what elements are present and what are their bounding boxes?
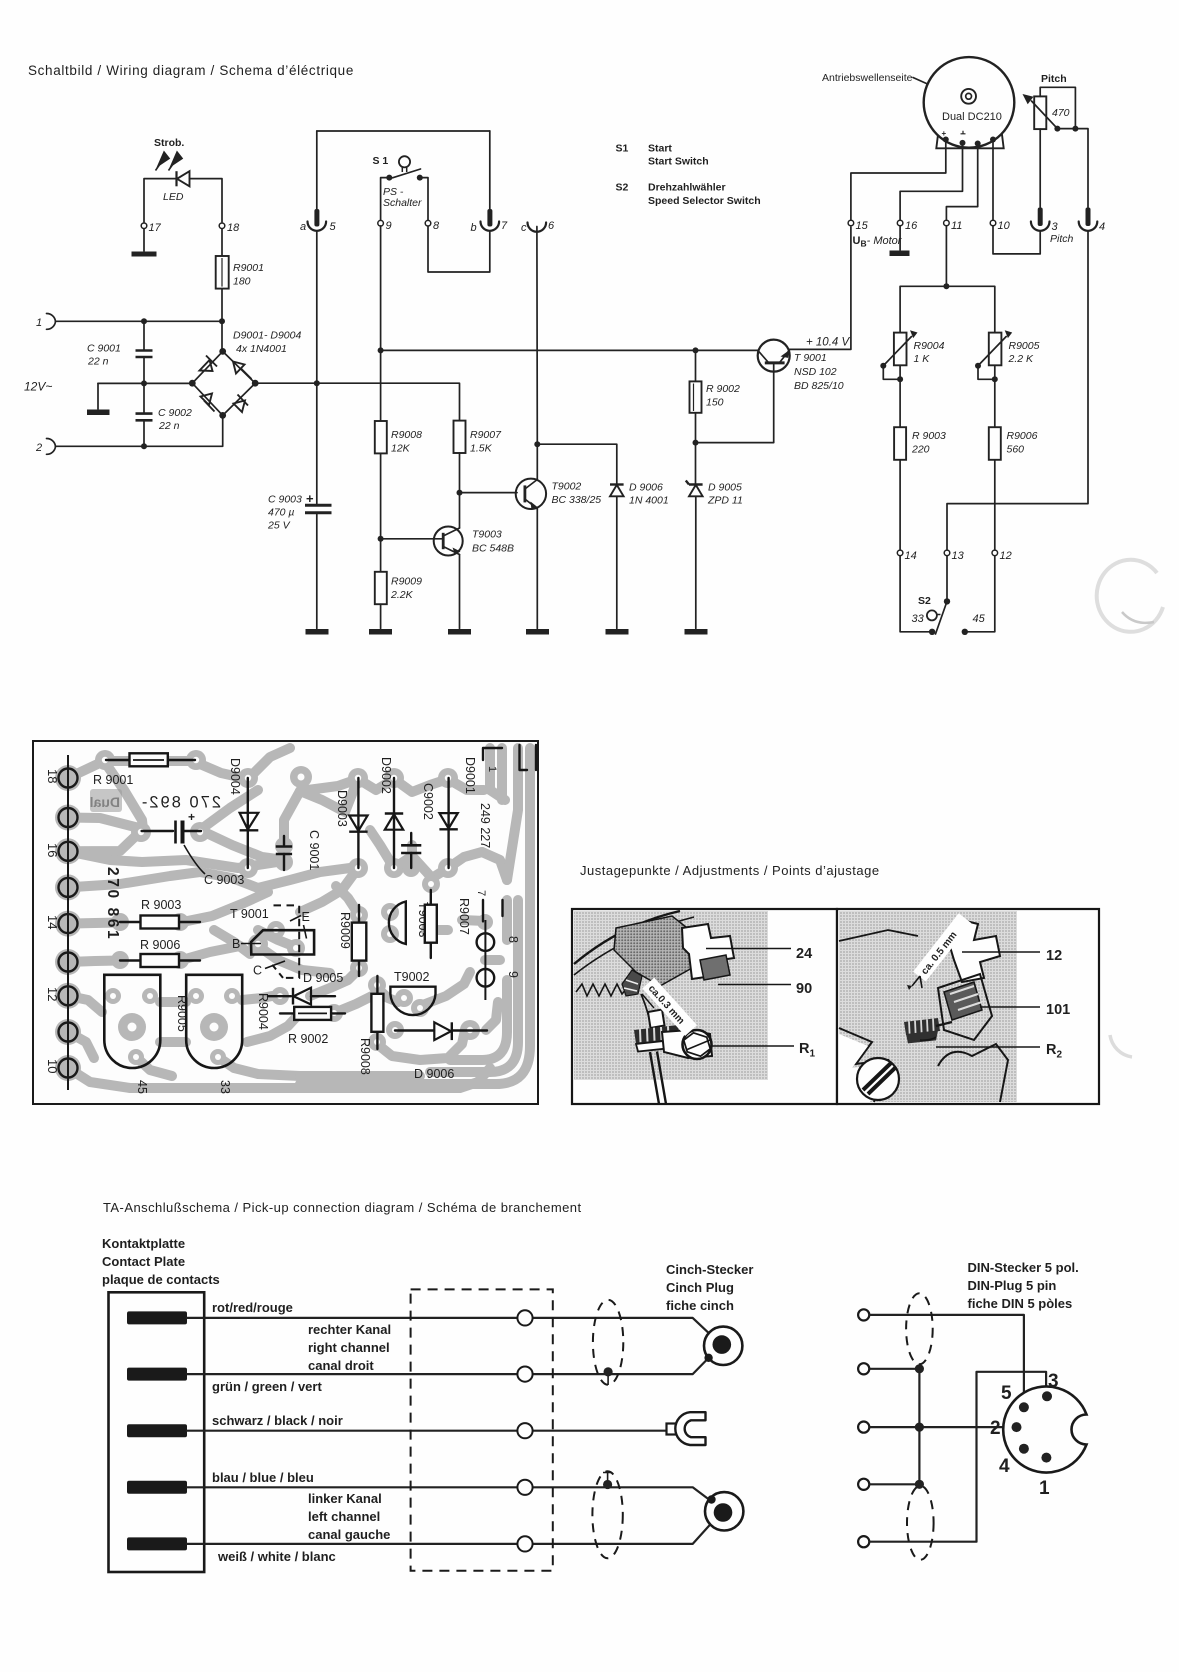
svg-text:S 1: S 1	[373, 155, 389, 167]
svg-text:Drehzahlwähler: Drehzahlwähler	[648, 182, 726, 194]
svg-text:15: 15	[856, 220, 869, 232]
svg-text:270 861: 270 861	[104, 867, 121, 941]
svg-text:DIN-Stecker 5 pol.: DIN-Stecker 5 pol.	[968, 1260, 1079, 1275]
strobe light arrows	[156, 152, 183, 171]
wire schwarz	[187, 1430, 667, 1432]
svg-text:150: 150	[706, 397, 724, 409]
wire plug4 down to 13	[947, 231, 1088, 550]
svg-text:UB- Motor: UB- Motor	[853, 235, 903, 249]
svg-text:rechter Kanal: rechter Kanal	[308, 1322, 391, 1337]
wire motor to 10	[992, 140, 994, 220]
ground under 17	[143, 229, 145, 251]
box1 clamp	[622, 970, 642, 996]
DIN pins	[1019, 1402, 1029, 1412]
svg-text:13: 13	[952, 550, 965, 562]
pcb diode D9001	[447, 778, 449, 868]
svg-text:90: 90	[796, 981, 812, 997]
wire gruen	[187, 1359, 708, 1375]
wire rot	[187, 1318, 720, 1343]
svg-text:11: 11	[951, 220, 962, 232]
wire terminal1 to bridge	[56, 320, 223, 322]
terminal 14	[897, 550, 903, 556]
ground under 16	[899, 226, 901, 250]
box2 chassis outline lines	[839, 930, 918, 941]
svg-text:R9008: R9008	[358, 1038, 372, 1075]
ground T9002	[526, 629, 549, 635]
pcb pads 8 and 9	[484, 920, 486, 1000]
box2 dithered background	[839, 911, 1017, 1102]
pcb trimmer R9004 (33)	[186, 975, 242, 1068]
svg-text:T9002: T9002	[552, 481, 582, 493]
shield ellipse top	[593, 1300, 623, 1385]
adjustment box 1 frame	[572, 909, 837, 1104]
svg-text:2.2K: 2.2K	[390, 589, 414, 601]
cinch plug right channel	[704, 1327, 742, 1365]
diode top-left	[200, 356, 218, 372]
svg-text:470 µ: 470 µ	[268, 507, 295, 519]
svg-text:R9001: R9001	[233, 262, 264, 274]
wire motor+ to 15	[851, 140, 946, 220]
resistor R9001	[221, 229, 223, 256]
svg-text:D 9005: D 9005	[303, 971, 343, 985]
svg-text:33: 33	[218, 1080, 232, 1094]
resistor R9008	[375, 421, 387, 453]
svg-text:BC 548B: BC 548B	[472, 543, 514, 555]
pcb resistor R9001	[106, 759, 195, 761]
svg-text:270 892-: 270 892-	[140, 794, 221, 812]
svg-text:4x 1N4001: 4x 1N4001	[236, 343, 287, 355]
svg-text:Pitch: Pitch	[1050, 233, 1074, 245]
switch S2	[946, 556, 948, 601]
svg-text:470: 470	[1052, 107, 1070, 119]
wire c down to T9002 collector	[536, 227, 538, 480]
svg-text:Dual DC210: Dual DC210	[942, 111, 1002, 123]
DIN shield ellipse bottom	[907, 1486, 934, 1560]
svg-text:NSD 102: NSD 102	[794, 366, 837, 378]
svg-text:D9004: D9004	[228, 758, 242, 795]
svg-text:5: 5	[1001, 1383, 1012, 1404]
svg-text:1: 1	[1039, 1478, 1050, 1499]
svg-text:1N 4001: 1N 4001	[629, 495, 669, 507]
DIN wire 1 to pin5	[870, 1315, 1024, 1402]
svg-text:b: b	[471, 222, 477, 234]
svg-text:C 9002: C 9002	[158, 407, 192, 419]
pad holes (white)	[102, 757, 473, 1060]
svg-text:Speed Selector Switch: Speed Selector Switch	[648, 195, 761, 207]
plate pins	[127, 1311, 187, 1550]
pcb trimmer R9005 (45)	[104, 975, 160, 1068]
pcb resistor R9002	[280, 1012, 345, 1014]
svg-text:TA-Anschlußschema / Pick-up co: TA-Anschlußschema / Pick-up connection d…	[103, 1200, 582, 1215]
svg-text:1: 1	[36, 317, 42, 329]
svg-text:D9001- D9004: D9001- D9004	[233, 330, 301, 342]
base wire to T9002	[460, 492, 518, 494]
svg-text:3: 3	[1052, 221, 1059, 233]
svg-text:22 n: 22 n	[87, 356, 109, 368]
left pad ring marks	[59, 755, 78, 1090]
PCB board outline	[33, 741, 538, 1104]
wire 11 down to trimmer bus	[945, 226, 947, 286]
box2 white cutout bottom-left	[839, 1034, 884, 1102]
svg-text:220: 220	[911, 444, 930, 456]
plug a pin	[316, 131, 318, 209]
wire a down to rail	[316, 231, 318, 383]
pcb resistor R9003	[120, 921, 200, 923]
svg-text:4: 4	[999, 1456, 1010, 1477]
terminal 11	[944, 220, 950, 226]
svg-text:7: 7	[475, 890, 487, 896]
svg-text:+: +	[188, 810, 195, 824]
wire 45 contact to terminal 12	[965, 556, 995, 632]
svg-text:grün / green / vert: grün / green / vert	[212, 1379, 322, 1394]
box2 leader to 101	[980, 1006, 1040, 1008]
svg-text:249 227: 249 227	[478, 803, 492, 848]
terminal 15	[848, 220, 854, 226]
terminal 10	[990, 220, 996, 226]
wire 8 to b	[428, 226, 490, 272]
pcb resistor R9006	[120, 959, 200, 961]
plug b cup	[481, 222, 500, 231]
DIN bus	[918, 1369, 920, 1485]
wire 14 to S2 contact 33	[900, 556, 932, 632]
svg-text:weiß / white / blanc: weiß / white / blanc	[217, 1549, 336, 1564]
svg-text:R 9006: R 9006	[140, 938, 180, 952]
svg-text:45: 45	[135, 1080, 149, 1094]
wire weiss	[187, 1513, 721, 1544]
svg-text:22 n: 22 n	[158, 420, 180, 432]
svg-text:Schalter: Schalter	[383, 197, 422, 209]
svg-text:S1: S1	[616, 143, 629, 155]
svg-text:Kontaktplatte: Kontaktplatte	[102, 1236, 185, 1251]
svg-text:4: 4	[1099, 221, 1105, 233]
svg-text:Start: Start	[648, 143, 672, 155]
spade lug	[667, 1424, 678, 1435]
box1 dark lever mass	[614, 916, 700, 986]
svg-text:12: 12	[1000, 550, 1012, 562]
bridge rectifier D9001-D9004	[192, 351, 255, 415]
terminal 18	[219, 223, 225, 229]
svg-text:left channel: left channel	[308, 1509, 380, 1524]
DIN connector circle	[1003, 1387, 1086, 1473]
wire terminal9 down through rails	[380, 226, 382, 421]
svg-text:c: c	[521, 222, 527, 234]
plus rail from bridge to R9007	[255, 383, 459, 420]
box2 knurled wheel R2	[904, 1018, 940, 1035]
shield ellipse bottom	[592, 1471, 622, 1558]
pcb resistor R9007	[430, 890, 432, 958]
box2 white bracket part 12	[948, 920, 1000, 982]
svg-text:canal droit: canal droit	[308, 1358, 374, 1373]
svg-text:B: B	[232, 937, 240, 951]
svg-text:10: 10	[998, 220, 1011, 232]
svg-text:D9001: D9001	[463, 757, 477, 794]
box1 rod	[650, 1052, 666, 1105]
svg-text:R9004: R9004	[256, 993, 270, 1030]
capacitor C9001	[143, 321, 145, 350]
svg-text:5: 5	[330, 221, 337, 233]
svg-text:12K: 12K	[391, 443, 411, 455]
svg-text:R 9002: R 9002	[288, 1032, 328, 1046]
svg-text:9: 9	[386, 220, 392, 232]
svg-text:canal gauche: canal gauche	[308, 1527, 390, 1542]
wire to D9006	[537, 444, 617, 484]
cinch plug left channel	[705, 1492, 743, 1530]
svg-text:T 9001: T 9001	[230, 907, 269, 921]
svg-text:R 9001: R 9001	[93, 773, 133, 787]
svg-text:6: 6	[548, 220, 555, 232]
box1 white bracket part 24	[682, 924, 734, 979]
DIN wire 2 to bus	[870, 1368, 920, 1370]
pitch pot 470	[1034, 96, 1046, 129]
svg-text:180: 180	[233, 276, 251, 288]
svg-text:Justagepunkte / Adjustments /: Justagepunkte / Adjustments / Points d’a…	[580, 863, 880, 878]
ground D9005	[685, 629, 708, 635]
DIN shield ellipse top	[906, 1293, 933, 1364]
svg-text:C 9001: C 9001	[87, 343, 121, 355]
wire R9007 to T9003 collector	[459, 453, 461, 528]
svg-text:14: 14	[45, 915, 60, 929]
svg-text:1 K: 1 K	[914, 353, 931, 365]
box1 screw R1	[683, 1030, 712, 1059]
svg-text:a: a	[300, 221, 306, 233]
wire R9008 down	[380, 453, 382, 571]
svg-text:25 V: 25 V	[267, 520, 291, 532]
svg-text:2: 2	[990, 1418, 1001, 1439]
svg-text:D 9006: D 9006	[414, 1067, 454, 1081]
plug b pin	[489, 131, 491, 209]
wire junction circles	[517, 1310, 532, 1551]
svg-text:Cinch Plug: Cinch Plug	[666, 1280, 734, 1295]
svg-text:T 9001: T 9001	[794, 352, 827, 364]
pcb transistor T9003	[389, 902, 406, 945]
DIN wire 3 to pin2	[870, 1426, 1012, 1428]
wire motor gnd to 16	[900, 143, 962, 220]
svg-text:fiche cinch: fiche cinch	[666, 1298, 734, 1313]
pcb resistor R9009	[358, 905, 360, 976]
svg-text:14: 14	[905, 550, 917, 562]
svg-text:C 9003: C 9003	[204, 873, 244, 887]
svg-text:T9003: T9003	[472, 529, 502, 541]
diode bottom-right	[234, 395, 249, 413]
svg-text:R9008: R9008	[391, 429, 422, 441]
trimmer R9005	[989, 333, 1002, 366]
diode top-right	[233, 362, 252, 380]
svg-text:33: 33	[912, 613, 925, 625]
plug a cup	[308, 222, 327, 231]
svg-text:S2: S2	[616, 182, 629, 194]
box1 ribbon ca.0.3mm	[642, 978, 697, 1036]
ground stub near 12V	[97, 383, 99, 409]
resistor R9003	[894, 427, 906, 460]
svg-text:Start Switch: Start Switch	[648, 156, 709, 168]
svg-text:Pitch: Pitch	[1041, 73, 1067, 85]
svg-text:45: 45	[973, 613, 986, 625]
box2 part 101 dark block	[944, 982, 982, 1020]
box1 dark part 90	[700, 955, 730, 980]
svg-text:linker Kanal: linker Kanal	[308, 1491, 382, 1506]
adjustment box 2 frame	[837, 909, 1099, 1104]
svg-text:C 9003: C 9003	[268, 494, 302, 506]
svg-text:D 9005: D 9005	[708, 482, 742, 494]
svg-text:17: 17	[149, 222, 162, 234]
diode bottom-left	[201, 394, 215, 412]
box2 hatched circle	[857, 1058, 899, 1100]
svg-text:10: 10	[45, 1059, 60, 1073]
svg-text:3: 3	[1048, 1371, 1059, 1392]
pcb diode D9004	[247, 778, 249, 868]
top wire a-b	[317, 130, 490, 132]
svg-text:R 9003: R 9003	[912, 430, 946, 442]
DIN wire 4 to bus	[870, 1483, 920, 1485]
svg-text:R9005: R9005	[1009, 340, 1040, 352]
svg-text:560: 560	[1007, 444, 1025, 456]
wire blau	[187, 1487, 711, 1501]
box2 white housing around 101	[938, 974, 992, 1040]
box1 wire to adjuster	[641, 994, 650, 1022]
svg-text:R9004: R9004	[914, 340, 945, 352]
svg-text:7: 7	[501, 220, 508, 232]
svg-text:12: 12	[1046, 948, 1062, 964]
svg-text:fiche DIN 5 pòles: fiche DIN 5 pòles	[968, 1296, 1073, 1311]
terminal 8	[425, 220, 431, 226]
zener D9005	[686, 481, 703, 485]
svg-text:R 9003: R 9003	[141, 898, 181, 912]
T9001 dashed rect	[274, 905, 300, 978]
paper smudge right margin	[1097, 560, 1163, 632]
box2 wheel stem	[936, 1022, 952, 1026]
wire motor to 11	[946, 144, 977, 220]
transistor T9002	[516, 479, 546, 509]
svg-text:Antriebswellenseite: Antriebswellenseite	[822, 72, 913, 84]
diode D9006	[610, 483, 624, 485]
wire pot bottom to plug 3	[1039, 129, 1041, 207]
wire R9001 to bridge top	[221, 289, 223, 352]
box2 leader to R2	[936, 1046, 1040, 1048]
svg-text:16: 16	[45, 843, 60, 857]
pcb edge marks top right	[483, 748, 502, 760]
svg-text:ZPD 11: ZPD 11	[707, 495, 743, 507]
svg-text:12V~: 12V~	[24, 380, 52, 394]
pcb diode D9006	[395, 1029, 434, 1031]
svg-text:D 9006: D 9006	[629, 482, 663, 494]
svg-text:BC 338/25: BC 338/25	[552, 494, 602, 506]
box1 adjuster shaft	[648, 1010, 665, 1029]
pcb diode D9002	[393, 778, 395, 868]
dashed housing rect	[411, 1289, 553, 1570]
pcb edge marks bottom right	[483, 900, 503, 921]
pcb resistor R9008	[376, 976, 378, 1049]
svg-text:D9002: D9002	[379, 757, 393, 794]
terminal 2 hook	[47, 438, 56, 446]
svg-text:schwarz / black / noir: schwarz / black / noir	[212, 1413, 343, 1428]
pcb cap C9003	[142, 830, 173, 832]
box1 spring	[576, 984, 627, 996]
box1 dithered background	[574, 911, 768, 1080]
svg-text:right channel: right channel	[308, 1340, 390, 1355]
transistor T9001	[758, 340, 790, 372]
svg-text:18: 18	[45, 769, 60, 783]
box1 arm to screw	[662, 1030, 712, 1058]
svg-text:T9002: T9002	[394, 970, 429, 984]
svg-text:R9007: R9007	[457, 898, 471, 935]
svg-text:C9002: C9002	[421, 783, 435, 820]
box2 screw spindle	[952, 990, 976, 1020]
plug 3 pin	[1038, 208, 1043, 227]
pcb cap C9001	[283, 836, 285, 845]
svg-text:9: 9	[506, 971, 520, 978]
svg-text:16: 16	[905, 220, 918, 232]
svg-text:12: 12	[45, 987, 60, 1001]
svg-text:R9006: R9006	[1007, 430, 1038, 442]
svg-text:R 9002: R 9002	[706, 383, 740, 395]
svg-text:+ 10.4 V: + 10.4 V	[806, 337, 850, 349]
DIN wire terminals	[858, 1309, 869, 1547]
resistor R9007	[454, 421, 466, 453]
mid rail wire	[98, 382, 192, 384]
svg-text:Dual: Dual	[90, 794, 120, 810]
svg-text:1: 1	[486, 766, 498, 772]
svg-text:plaque de contacts: plaque de contacts	[102, 1272, 220, 1287]
contact plate	[109, 1292, 205, 1572]
svg-text:101: 101	[1046, 1002, 1070, 1018]
resistor R9006	[989, 427, 1001, 460]
transistor T9003	[434, 527, 463, 556]
LED D (strobe lamp)	[144, 179, 177, 222]
capacitor C9003	[316, 383, 318, 505]
terminal 12	[992, 550, 998, 556]
svg-text:R9009: R9009	[391, 576, 422, 588]
box1 leader to R1	[712, 1045, 794, 1047]
pcb diode D9003	[357, 778, 359, 868]
svg-text:E: E	[302, 910, 310, 924]
svg-text:Cinch-Stecker: Cinch-Stecker	[666, 1262, 753, 1277]
svg-text:2.2 K: 2.2 K	[1008, 353, 1035, 365]
ground C9003	[306, 629, 329, 635]
svg-text:DIN-Plug 5 pin: DIN-Plug 5 pin	[968, 1278, 1057, 1293]
motor terminal dots	[943, 137, 949, 143]
terminal 16	[897, 220, 903, 226]
svg-text:C 9001: C 9001	[307, 830, 321, 870]
pcb copper traces (gray)	[68, 748, 530, 1088]
svg-text:C: C	[253, 964, 262, 978]
box2 leader to 12	[962, 951, 1040, 953]
pcb cap C9002	[410, 833, 412, 844]
svg-text:+: +	[306, 491, 314, 506]
wire terminal2 to bridge bottom	[56, 415, 223, 446]
svg-text:R9007: R9007	[470, 429, 502, 441]
svg-text:R9009: R9009	[338, 912, 352, 949]
resistor R9009	[375, 572, 387, 604]
svg-text:18: 18	[227, 222, 240, 234]
svg-text:2: 2	[35, 442, 42, 454]
terminal 1 hook	[47, 313, 56, 321]
ground T9003	[448, 629, 471, 635]
box1 knurled nut	[634, 1025, 680, 1052]
svg-text:Contact Plate: Contact Plate	[102, 1254, 185, 1269]
svg-text:rot/red/rouge: rot/red/rouge	[212, 1300, 293, 1315]
svg-text:24: 24	[796, 946, 812, 962]
pcb diode D9005	[268, 995, 291, 997]
svg-text:BD 825/10: BD 825/10	[794, 380, 844, 392]
box2 ribbon ca.0.5mm	[913, 913, 971, 981]
ground R9009	[369, 629, 392, 635]
DIN wire 5 to pin3	[870, 1372, 1047, 1542]
capacitor C9002	[143, 383, 145, 413]
svg-text:S2: S2	[918, 595, 931, 607]
box1 leader to 90	[718, 984, 791, 986]
svg-text:blau / blue / bleu: blau / blue / bleu	[212, 1470, 314, 1485]
ghost Dual logo	[90, 789, 122, 812]
